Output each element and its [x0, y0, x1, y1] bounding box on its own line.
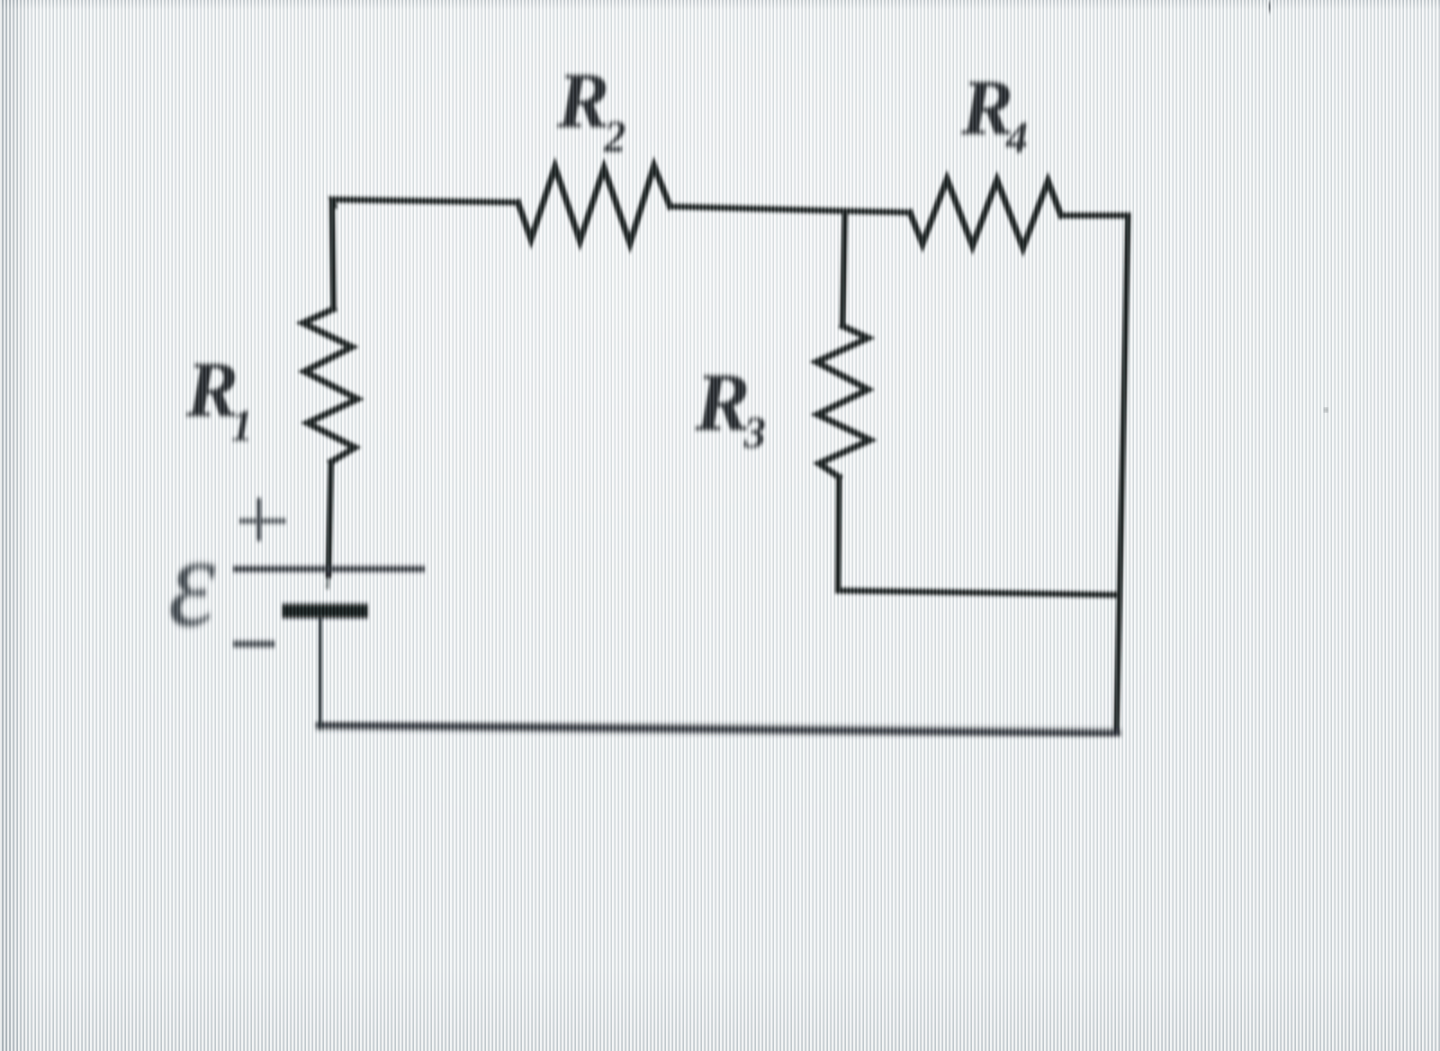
speck [1324, 408, 1327, 411]
wire: R1 to battery [329, 462, 332, 575]
wire: R4 to top-right corner [1061, 213, 1128, 219]
wire: node A to R4 [845, 211, 910, 213]
resistor R2 [518, 166, 670, 244]
plus sign [239, 498, 286, 541]
resistor R4 [910, 179, 1061, 248]
battery EMF source [233, 498, 425, 644]
minus sign [233, 641, 275, 648]
wire: top-left corner to R2 [332, 200, 518, 207]
wire: left vertical upper [332, 200, 334, 310]
wire: node A down to R3 [843, 211, 846, 326]
battery short thick plate (-) [282, 604, 368, 619]
resistor R1 [303, 309, 358, 462]
wire: R3 branch horizontal to right side [838, 591, 1120, 596]
wire: bottom [320, 725, 1118, 734]
wire: R2 to node A [670, 207, 845, 212]
battery long plate (+) [233, 566, 425, 571]
wire: right side vertical [1117, 216, 1129, 732]
wire: battery to bottom-left corner [320, 618, 322, 725]
edge tick mark [1269, 2, 1270, 12]
wire: faint tail through battery gap [326, 572, 331, 587]
wire: R3 to bottom corner [838, 477, 839, 589]
resistor R3 [817, 326, 871, 477]
